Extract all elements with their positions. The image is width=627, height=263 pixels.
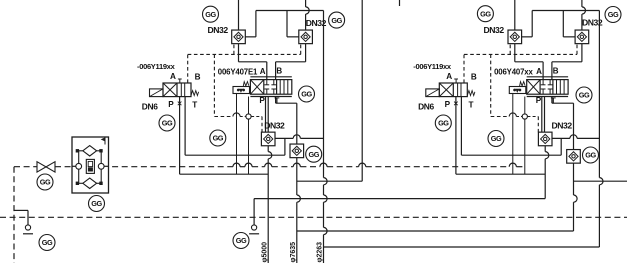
svg-text:GG: GG: [205, 10, 216, 19]
svg-text:φ2263: φ2263: [317, 242, 324, 263]
svg-text:GG: GG: [608, 10, 619, 19]
svg-text:GG: GG: [162, 119, 173, 128]
svg-text:GG: GG: [579, 91, 590, 100]
svg-text:T: T: [469, 101, 474, 110]
svg-text:006Y407xx: 006Y407xx: [494, 68, 533, 77]
svg-text:GG: GG: [491, 134, 502, 143]
svg-text:GG: GG: [438, 119, 449, 128]
svg-text:GG: GG: [480, 9, 491, 18]
svg-text:P: P: [536, 96, 542, 105]
svg-text:GG: GG: [308, 150, 319, 159]
svg-text:A: A: [446, 72, 452, 81]
svg-text:T: T: [274, 96, 279, 105]
svg-text:φ7635: φ7635: [290, 242, 297, 263]
svg-text:DN6: DN6: [418, 102, 434, 112]
svg-text:T: T: [192, 101, 197, 110]
svg-text:GG: GG: [331, 16, 342, 25]
svg-text:P: P: [445, 100, 451, 109]
svg-text:A: A: [536, 67, 542, 76]
svg-text:DN32: DN32: [264, 121, 285, 131]
svg-text:GG: GG: [213, 134, 224, 143]
svg-text:GG: GG: [40, 178, 51, 187]
svg-text:B: B: [276, 66, 282, 75]
svg-text:GG: GG: [42, 238, 53, 247]
svg-text:DN32: DN32: [208, 25, 229, 35]
svg-text:-006Y119xx: -006Y119xx: [137, 62, 176, 71]
svg-text:T: T: [551, 96, 556, 105]
svg-text:006Y407E1: 006Y407E1: [218, 68, 258, 77]
svg-text:P: P: [168, 100, 174, 109]
svg-text:B: B: [195, 73, 201, 82]
svg-text:DN32: DN32: [552, 121, 573, 131]
svg-text:DN6: DN6: [142, 102, 158, 112]
svg-text:-006Y119xx: -006Y119xx: [413, 62, 452, 71]
svg-text:φ5000: φ5000: [261, 242, 268, 263]
svg-text:DN32: DN32: [484, 25, 505, 35]
svg-text:GG: GG: [301, 90, 312, 99]
svg-text:B: B: [553, 66, 559, 75]
svg-text:P: P: [259, 96, 265, 105]
svg-text:GG: GG: [91, 199, 102, 208]
svg-text:GG: GG: [585, 151, 596, 160]
svg-text:A: A: [170, 72, 176, 81]
svg-text:A: A: [260, 67, 266, 76]
svg-text:B: B: [471, 73, 477, 82]
svg-text:GG: GG: [236, 236, 247, 245]
